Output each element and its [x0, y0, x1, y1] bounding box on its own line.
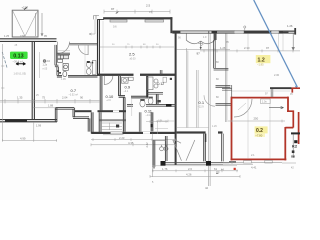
window sills — [103, 134, 124, 136]
door arc at left building entry — [57, 42, 69, 54]
svg-text:2.23: 2.23 — [119, 136, 125, 140]
dim pair x197 — [197, 70, 199, 128]
svg-text:2.42: 2.42 — [145, 142, 149, 148]
interior dim chain big room — [100, 46, 174, 49]
top wall band of big room — [104, 17, 173, 19]
kitchen west wall pair — [55, 45, 70, 76]
svg-text:61: 61 — [214, 167, 218, 171]
svg-text:1.60 (1.05): 1.60 (1.05) — [14, 72, 27, 76]
black fill segment bottom-left wall — [5, 120, 27, 122]
room label 0.2 yellow highlight — [255, 126, 268, 133]
gray stub above red room left — [222, 85, 232, 97]
door arc bath1 — [104, 76, 113, 85]
top dim line above big room — [104, 10, 170, 14]
svg-text:3.60: 3.60 — [20, 34, 26, 38]
svg-text:2.30: 2.30 — [274, 73, 280, 77]
svg-text:97: 97 — [197, 52, 201, 56]
svg-text:2.5: 2.5 — [146, 4, 151, 8]
bathroom block: wall y75 — [98, 74, 134, 76]
interior thin verticals red room — [248, 99, 270, 158]
interior wall x204 — [204, 134, 206, 162]
tiny circle mark above wall — [244, 26, 246, 28]
south wall of bath rooms right part — [127, 104, 176, 106]
red room right wall upper — [287, 97, 289, 111]
svg-text:4.99: 4.99 — [20, 136, 26, 140]
wall y76 middle-left — [57, 75, 98, 77]
stepped wall south-west of middle building — [55, 108, 90, 132]
svg-text:1.76: 1.76 — [162, 167, 168, 171]
left dim line — [1, 44, 4, 141]
WC fixture room 0.10 — [140, 100, 145, 107]
window tab 1 — [110, 20, 127, 22]
svg-text:2.04: 2.04 — [62, 96, 68, 100]
light fixture label box — [261, 99, 271, 104]
window in top-right wall 1 — [234, 31, 244, 33]
wall x157 — [156, 94, 158, 104]
dark wall top of room 1.2 area — [270, 87, 292, 89]
top-right wall band y32 — [172, 31, 295, 33]
bottom wall with windows lower-left building — [99, 112, 101, 132]
door arc into red room — [234, 99, 252, 117]
section mark diagonal left edge — [2, 52, 7, 68]
svg-text:~7.80: ~7.80 — [255, 134, 263, 138]
dim rows under left building — [0, 99, 100, 108]
washbasin fixtures — [121, 77, 133, 83]
svg-text:250: 250 — [254, 117, 259, 121]
svg-text:1.26: 1.26 — [287, 24, 293, 28]
dim rows below lower-right building — [150, 169, 240, 177]
svg-text:97: 97 — [266, 46, 270, 50]
red fragment top-right corner — [292, 88, 300, 93]
double-door swing — [173, 140, 195, 161]
svg-text:42: 42 — [205, 186, 209, 190]
pointer arrow in red room — [269, 106, 284, 108]
svg-text:xx: xx — [291, 155, 295, 159]
window sill under red room — [223, 163, 282, 165]
balcony void rectangle top-left — [12, 10, 38, 37]
svg-text:2.30: 2.30 — [244, 46, 250, 50]
svg-text:K2: K2 — [292, 144, 298, 149]
red room bottom wall — [231, 158, 287, 160]
svg-text:2.1: 2.1 — [251, 153, 255, 157]
thin continuation to east edge — [283, 32, 295, 34]
walls of small bath rooms — [100, 76, 148, 132]
red step out — [285, 110, 294, 127]
stair arc lower corridor — [204, 95, 215, 106]
door arc corridor — [78, 45, 88, 55]
vertical wall x56 — [55, 108, 57, 123]
svg-text:4.35: 4.35 — [128, 141, 134, 145]
svg-text:1.88: 1.88 — [48, 104, 54, 108]
window in top-right wall 2 — [271, 31, 279, 33]
svg-text:~4.1: ~4.1 — [124, 90, 129, 93]
blue reference line — [254, 0, 298, 87]
top wall of left building — [0, 39, 57, 42]
red survey dot — [234, 168, 236, 170]
svg-text:0.10: 0.10 — [106, 94, 115, 99]
NE corner wall drop — [170, 17, 172, 33]
long thin dim pair x226 — [225, 34, 227, 123]
svg-text:±0.00: ±0.00 — [130, 57, 137, 60]
interior wall x166 — [165, 136, 167, 161]
red room top wall — [232, 97, 289, 99]
arrow tick at balcony top — [24, 8, 27, 10]
svg-text:1.95: 1.95 — [61, 78, 66, 81]
svg-text:75: 75 — [42, 96, 46, 100]
dimension line right of balcony — [36, 13, 44, 36]
dim vertical pair left of building — [152, 134, 155, 177]
svg-text:~22.9: ~22.9 — [198, 106, 205, 109]
red room left wall — [231, 97, 233, 161]
lower-right building top wall — [177, 131, 206, 133]
bottom wall of left building — [0, 120, 57, 122]
annotation circle symbol — [43, 60, 46, 63]
kitchen counter — [58, 55, 69, 77]
vertical x161 top — [160, 70, 162, 76]
east end cap — [294, 28, 296, 35]
corridor door stubs east side — [214, 40, 231, 105]
svg-text:1.26: 1.26 — [212, 125, 217, 128]
room label I.2 yellow highlight — [256, 55, 271, 63]
svg-text:~2.6: ~2.6 — [106, 99, 111, 102]
long thin corridor dim pair x209 — [209, 34, 211, 187]
svg-text:0.13: 0.13 — [13, 54, 24, 60]
wall y93 small — [146, 93, 163, 95]
T stub wall — [214, 33, 217, 40]
lower-right building left wall — [153, 140, 155, 166]
lower-left building walls — [91, 112, 93, 133]
black chunk — [166, 104, 172, 107]
svg-text:1.26: 1.26 — [220, 46, 226, 50]
svg-text:e.05: e.05 — [43, 68, 48, 71]
east dim tail — [292, 33, 294, 50]
left wall big top room — [98, 19, 100, 76]
svg-text:~1.85: ~1.85 — [257, 63, 264, 67]
kitchen sill line — [57, 50, 70, 52]
svg-text:4.41: 4.41 — [251, 166, 257, 170]
svg-text:2.5: 2.5 — [129, 51, 135, 56]
dim line under arch — [177, 48, 230, 51]
svg-text:0.1: 0.1 — [199, 100, 205, 105]
dim line top-right y51 — [200, 49, 300, 52]
svg-text:1.99: 1.99 — [36, 123, 42, 127]
bottom wall with piers lower-right building — [161, 161, 166, 166]
svg-text:0.12: 0.12 — [158, 82, 165, 86]
dim rows under lower-left building — [91, 138, 176, 146]
window tab 2 — [145, 20, 164, 22]
jog to top wall — [98, 17, 104, 19]
area text 0.2 — [255, 133, 265, 137]
tick marks near arch center — [198, 44, 203, 46]
dim pair x187 — [186, 51, 188, 128]
dim line red room — [228, 120, 285, 123]
svg-text:1.25: 1.25 — [4, 34, 10, 38]
svg-text:0.7: 0.7 — [71, 88, 77, 93]
interior vertical x152 — [151, 112, 153, 131]
shower room right — [147, 77, 158, 90]
curtain arch in top-right room — [186, 33, 215, 49]
svg-text:2.6: 2.6 — [188, 167, 192, 171]
svg-text:~3.52 m²: ~3.52 m² — [69, 94, 79, 97]
long east wall of middle building — [175, 33, 177, 165]
corridor wall y44 — [70, 43, 98, 45]
svg-text:90: 90 — [80, 96, 84, 100]
door swing arrow symbol — [16, 63, 26, 65]
east annex dark bits — [291, 132, 300, 134]
V bracing inside balcony — [13, 11, 38, 37]
svg-text:1.35: 1.35 — [17, 96, 23, 100]
svg-text:1.0x: 1.0x — [262, 100, 267, 103]
svg-text:4.26: 4.26 — [186, 172, 192, 176]
svg-text:0.6: 0.6 — [113, 25, 117, 29]
toilet lower left room — [148, 98, 153, 104]
socket circles — [160, 145, 168, 151]
interior wall x222 — [222, 134, 224, 162]
dim vertical x39 — [39, 52, 41, 78]
svg-text:1.2x: 1.2x — [43, 64, 48, 67]
red wall far-right edge — [298, 112, 300, 144]
mid horizontal wall y111 — [75, 110, 92, 112]
interior vertical wall x33 — [32, 41, 34, 120]
svg-text:97: 97 — [111, 7, 115, 11]
red room right wall lower — [284, 127, 286, 160]
room label 0.13 green highlight — [10, 52, 28, 59]
WC fixtures column — [87, 61, 97, 75]
